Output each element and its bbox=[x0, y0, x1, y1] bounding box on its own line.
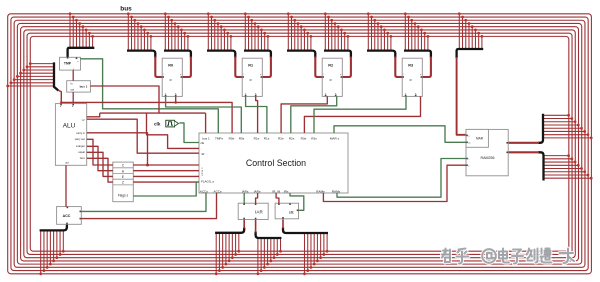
svg-text:R2: R2 bbox=[328, 64, 333, 68]
RAM data taps to bus bbox=[544, 154, 593, 179]
wire R2e (red, R2 to Control) bbox=[281, 96, 327, 133]
register R3 bbox=[402, 58, 422, 96]
wire IARs (green, Control to IAR) bbox=[243, 193, 245, 203]
wire flag A to Control bbox=[133, 170, 199, 172]
svg-text:bus: bus bbox=[120, 6, 132, 13]
wire IRs (green, Control to IR) bbox=[290, 193, 304, 210]
svg-text:Z: Z bbox=[122, 181, 124, 185]
wire R2s (green, R2 to Control) bbox=[291, 96, 337, 133]
svg-text:IAR: IAR bbox=[255, 209, 263, 214]
svg-text:FLAGS_s: FLAGS_s bbox=[201, 179, 215, 183]
IR set taps to bus bbox=[303, 233, 328, 275]
ACC bus collector (thick) bbox=[40, 224, 67, 230]
wire bus1 enable (red, bus1 to Control) bbox=[90, 86, 205, 133]
svg-text:ACCs: ACCs bbox=[200, 189, 209, 193]
wire R0 enable to right pin (thick) bbox=[182, 57, 191, 78]
svg-text:IRs: IRs bbox=[284, 189, 289, 193]
IAR enable collector (thick) bbox=[256, 232, 282, 239]
wire ALU out to ACC bbox=[65, 165, 67, 206]
bus taps: R1 enable (output) bbox=[244, 12, 269, 50]
svg-text:R2s: R2s bbox=[289, 137, 295, 141]
svg-text:TMPs: TMPs bbox=[215, 137, 224, 141]
wire R1s (green, R1 to Control) bbox=[246, 96, 267, 133]
bus taps: R3 set (input) bbox=[367, 12, 392, 50]
wire R3s (green, R3 to Control) bbox=[314, 96, 406, 133]
memory RAM256 with MAR bbox=[466, 129, 508, 175]
svg-text:R0s: R0s bbox=[239, 137, 245, 141]
wire R0 set to left pin (thick) bbox=[155, 57, 162, 78]
svg-text:R0: R0 bbox=[168, 64, 173, 68]
wire 'af' (red, ALU to net) bbox=[87, 113, 100, 117]
bus taps to MAR address input bbox=[458, 12, 483, 49]
watermark Zhihu @dianzi-chuangzaoli (drawn glyph strokes) bbox=[442, 249, 574, 264]
bus label bbox=[120, 6, 132, 13]
TMP bus collector (thick) bbox=[68, 48, 95, 58]
wire equal to flag E bbox=[87, 152, 113, 176]
svg-text:TMP: TMP bbox=[64, 62, 72, 66]
R0 set collector (thick) bbox=[127, 51, 155, 58]
svg-text:R: R bbox=[330, 78, 332, 82]
wire IAR bottom-right pin to bus collector bbox=[255, 220, 257, 233]
svg-text:zero: zero bbox=[80, 156, 86, 160]
bus taps: R0 set (input) bbox=[127, 12, 152, 50]
svg-text:IR: IR bbox=[289, 210, 293, 215]
register IAR bbox=[238, 203, 268, 219]
svg-text:clk: clk bbox=[201, 141, 205, 145]
svg-text:R: R bbox=[250, 78, 252, 82]
R1 set collector (thick) bbox=[207, 51, 235, 58]
wire RAM data pin to collector (thick) bbox=[508, 151, 539, 153]
register R2 bbox=[322, 58, 342, 96]
wire IR bottom pin to bus collector bbox=[282, 219, 284, 228]
wire bus1 out to ALU input b bbox=[72, 92, 74, 104]
wire IARe (red, Control to IAR) bbox=[256, 193, 258, 203]
svg-text:carry out: carry out bbox=[75, 137, 85, 141]
svg-text:R: R bbox=[410, 78, 412, 82]
IAR enable taps to bus bbox=[257, 238, 282, 275]
wire R3 set to left pin (thick) bbox=[395, 57, 402, 78]
IR bus collector (thick) bbox=[283, 228, 328, 234]
wire R0s (green, R0 to Control) bbox=[166, 96, 242, 133]
bus taps: R1 set (input) bbox=[207, 12, 232, 50]
R0 enable collector (thick) bbox=[164, 51, 191, 58]
register TMP bbox=[60, 57, 81, 70]
svg-text:R: R bbox=[170, 78, 172, 82]
R3 set collector (thick) bbox=[367, 51, 395, 58]
wire R2 set to left pin (thick) bbox=[315, 57, 322, 78]
svg-text:R3: R3 bbox=[408, 64, 413, 68]
bus taps: R2 set (input) bbox=[287, 12, 312, 50]
wire staircase S1 (red, net to Control) bbox=[147, 113, 200, 148]
wire IAR bottom-left pin to bus collector bbox=[243, 220, 245, 229]
wire R3 enable to right pin (thick) bbox=[422, 57, 431, 78]
wire TMP out to bus1 in bbox=[72, 70, 74, 81]
svg-text:carry in: carry in bbox=[76, 131, 85, 135]
svg-text:'af': 'af' bbox=[201, 152, 205, 156]
op-amp? no - ALU block U1 bbox=[55, 104, 86, 166]
flags register stack C/A/E/Z bbox=[113, 162, 134, 202]
svg-text:bus 1: bus 1 bbox=[80, 85, 88, 89]
svg-text:R0e: R0e bbox=[229, 137, 235, 141]
wire flag E to Control bbox=[133, 175, 199, 177]
svg-text:'af': 'af' bbox=[82, 118, 86, 122]
wire IR_IN (red, Control to IR) bbox=[276, 193, 279, 203]
wire RAMe (red, Control to RAM) bbox=[323, 165, 466, 201]
wire ACCe (green, ACC to Control) bbox=[81, 193, 206, 211]
wire flag Z to Control bbox=[133, 181, 199, 183]
wire R1 set to left pin (thick) bbox=[235, 57, 242, 78]
svg-text:R1e: R1e bbox=[254, 137, 260, 141]
svg-text:IR_IN: IR_IN bbox=[272, 189, 280, 193]
control unit block - Control Section bbox=[199, 133, 348, 193]
wire MARs (green, Control to MAR clock) bbox=[334, 126, 466, 143]
bus taps to ALU input a (left side) bbox=[6, 62, 54, 87]
svg-text:out: out bbox=[70, 88, 74, 92]
MAR bus collector (thick) bbox=[457, 49, 484, 58]
svg-text:R3e: R3e bbox=[301, 137, 307, 141]
svg-text:R1s: R1s bbox=[264, 137, 270, 141]
wire ACCs (red, ACC to Control) bbox=[81, 193, 216, 219]
svg-text:s: s bbox=[325, 93, 326, 95]
svg-text:IARe: IARe bbox=[254, 189, 261, 193]
svg-text:ALU: ALU bbox=[63, 123, 76, 130]
svg-text:MAR: MAR bbox=[476, 136, 484, 140]
register R1 bbox=[242, 58, 262, 96]
wire RAM address out to collector (thick) bbox=[508, 142, 539, 144]
svg-text:Control Section: Control Section bbox=[246, 158, 306, 168]
svg-text:s: s bbox=[245, 93, 246, 95]
wire a-larger to flag A bbox=[87, 146, 113, 170]
R2 set collector (thick) bbox=[287, 51, 315, 58]
register IR bbox=[275, 203, 298, 219]
svg-text:R2e: R2e bbox=[278, 137, 284, 141]
wire carry-in (red, ALU to flag C wire) bbox=[87, 133, 149, 167]
clock input pin clk bbox=[154, 120, 179, 127]
wire staircase S2 (red, ALU to Control) bbox=[87, 119, 199, 153]
svg-text:a larger: a larger bbox=[76, 144, 85, 148]
svg-text:Flags s: Flags s bbox=[118, 194, 129, 198]
svg-text:ACCe: ACCe bbox=[214, 189, 223, 193]
wire R1e (red, R1 to Control) bbox=[256, 96, 258, 133]
wire clk (green, clk pin to Control) bbox=[179, 123, 199, 143]
wire bus to MAR input a (long drop) bbox=[457, 57, 466, 135]
wire FLAGS_s (green, flags to Control) bbox=[133, 182, 199, 196]
svg-text:RAMe: RAMe bbox=[316, 189, 325, 193]
MAR-out collector (thick) bbox=[538, 114, 543, 143]
wire R0e (red, R0 to Control) bbox=[176, 96, 232, 133]
svg-text:R3s: R3s bbox=[311, 137, 317, 141]
wire TMPs (green, TMP to Control) bbox=[80, 59, 218, 133]
wire flag C to Control bbox=[133, 164, 199, 166]
ALU input-a bus collector (thick) bbox=[54, 62, 59, 90]
IAR set taps to bus bbox=[215, 233, 240, 275]
RAM-data collector (thick) bbox=[538, 152, 544, 180]
register ACC bbox=[57, 207, 82, 225]
wire carry-out to flag C bbox=[87, 139, 113, 165]
wire zero to flag Z bbox=[87, 158, 113, 182]
svg-text:R1: R1 bbox=[248, 64, 253, 68]
svg-text:MAR s: MAR s bbox=[330, 137, 340, 141]
R1 enable collector (thick) bbox=[244, 51, 271, 58]
bus taps to TMP register bbox=[69, 12, 94, 47]
component bus1 (adds 1) bbox=[67, 81, 91, 92]
svg-text:equal: equal bbox=[78, 150, 85, 154]
register R0 bbox=[162, 58, 182, 96]
wire R1 enable to right pin (thick) bbox=[262, 57, 271, 78]
svg-text:clk: clk bbox=[154, 122, 161, 127]
svg-text:s: s bbox=[165, 93, 166, 95]
svg-text:RAMs: RAMs bbox=[332, 189, 341, 193]
wire RAMs (green, Control to RAM) bbox=[337, 159, 466, 198]
R2 enable collector (thick) bbox=[324, 51, 351, 58]
svg-text:IARs: IARs bbox=[242, 189, 249, 193]
svg-text:s: s bbox=[405, 93, 406, 95]
R3 enable collector (thick) bbox=[404, 51, 431, 58]
bus taps: R2 enable (output) bbox=[324, 12, 349, 50]
ACC output taps to bus bbox=[39, 230, 64, 275]
wire branch into R0e (red, from ALU-a feed) bbox=[60, 101, 177, 104]
svg-text:out: out bbox=[65, 162, 69, 165]
wire R2 enable to right pin (thick) bbox=[342, 57, 351, 78]
bus taps: R3 enable (output) bbox=[404, 12, 429, 50]
bus taps: R0 enable (output) bbox=[164, 12, 189, 50]
svg-text:ACC: ACC bbox=[63, 214, 71, 218]
svg-text:E: E bbox=[122, 175, 124, 179]
wire ALU input a bbox=[58, 90, 62, 105]
IAR set collector (thick) bbox=[215, 228, 244, 233]
wire R3e (red, R3 to Control) bbox=[304, 96, 420, 133]
svg-text:RAM256: RAM256 bbox=[481, 156, 495, 160]
MAR address out taps to bus bbox=[543, 114, 593, 139]
